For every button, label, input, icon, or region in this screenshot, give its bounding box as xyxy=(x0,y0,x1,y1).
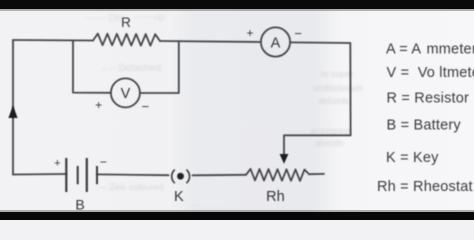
wire corner to rheostat wiper xyxy=(284,135,351,155)
svg-text:K: K xyxy=(174,189,184,205)
battery B label xyxy=(75,196,84,212)
svg-text:mmeter: mmeter xyxy=(427,41,474,57)
svg-text:−: − xyxy=(142,99,150,114)
current direction arrow on left wire xyxy=(8,106,17,119)
svg-text:B = Battery: B = Battery xyxy=(387,117,462,133)
meter letters and component labels xyxy=(54,15,302,212)
bottom letterbox bar xyxy=(0,212,474,220)
key K (plug key) xyxy=(172,170,190,184)
svg-text:abscds: abscds xyxy=(315,138,344,148)
battery plus polarity xyxy=(54,158,60,170)
wire ammeter to right corner xyxy=(290,41,350,44)
svg-text:Rh: Rh xyxy=(266,189,285,205)
wire resistor to ammeter xyxy=(160,41,261,42)
legend Rh = Rheostat xyxy=(377,179,473,195)
resistor R xyxy=(93,34,160,46)
key K label xyxy=(174,189,184,205)
svg-text:−: − xyxy=(100,155,107,169)
svg-text:K = Key: K = Key xyxy=(386,150,439,166)
wire battery to key xyxy=(97,173,169,176)
svg-text:V: V xyxy=(121,86,131,102)
ammeter A xyxy=(261,27,290,56)
voltmeter plus polarity xyxy=(95,98,102,112)
legend R = Resistor xyxy=(387,91,470,107)
rheostat Rh label xyxy=(266,189,285,205)
key contact dot xyxy=(177,173,184,180)
battery B xyxy=(66,158,97,192)
ammeter plus polarity xyxy=(246,26,253,40)
svg-text:V = Vo ltmeter: V = Vo ltmeter xyxy=(387,65,474,81)
svg-text:— ………: — ……… xyxy=(190,200,229,210)
svg-text:abhsids: abhsids xyxy=(318,96,350,106)
wire left vertical xyxy=(12,40,14,175)
resistor R label xyxy=(121,15,131,30)
legend V = Voltmeter xyxy=(387,65,474,81)
ammeter letter A xyxy=(271,35,281,51)
voltmeter letter V xyxy=(121,86,131,102)
svg-text:B: B xyxy=(75,196,84,212)
legend B = Battery xyxy=(387,117,462,133)
svg-text:Rh = Rheostat: Rh = Rheostat xyxy=(377,179,473,195)
wire key to rheostat xyxy=(193,174,247,177)
voltmeter branch left wire xyxy=(73,40,111,93)
svg-text:+: + xyxy=(246,26,253,40)
svg-text:+: + xyxy=(95,98,102,112)
svg-text:——up: ——up xyxy=(134,12,166,23)
wire bottom left to battery xyxy=(13,173,66,176)
legend A = Ammeter xyxy=(386,41,474,57)
svg-text:—— Dis: —— Dis xyxy=(86,13,123,24)
rheostat wiper arrow head xyxy=(280,154,289,164)
top letterbox bar xyxy=(0,0,474,9)
svg-text:A = A: A = A xyxy=(386,41,421,57)
svg-text:−: − xyxy=(294,26,302,41)
svg-text:R: R xyxy=(121,15,131,30)
svg-text:undisclosum: undisclosum xyxy=(313,83,363,93)
voltmeter minus polarity xyxy=(142,99,150,114)
legend xyxy=(377,41,474,195)
wire right vertical xyxy=(349,43,351,135)
battery minus polarity xyxy=(100,155,107,169)
voltmeter V xyxy=(111,78,140,107)
svg-text:— Zinc coloured: — Zinc coloured xyxy=(98,182,164,192)
faint bleed-through smudges (decorative) xyxy=(86,12,363,210)
ammeter minus polarity xyxy=(294,26,302,41)
rheostat Rh xyxy=(246,169,324,181)
wire top segment to resistor xyxy=(13,39,93,42)
svg-text:←– Detached: ←– Detached xyxy=(100,63,161,74)
voltmeter branch right wire xyxy=(140,41,179,93)
svg-text:R = Resistor: R = Resistor xyxy=(387,91,470,107)
svg-text:A: A xyxy=(271,35,281,51)
legend K = Key xyxy=(386,150,439,166)
svg-text:+: + xyxy=(54,158,60,170)
